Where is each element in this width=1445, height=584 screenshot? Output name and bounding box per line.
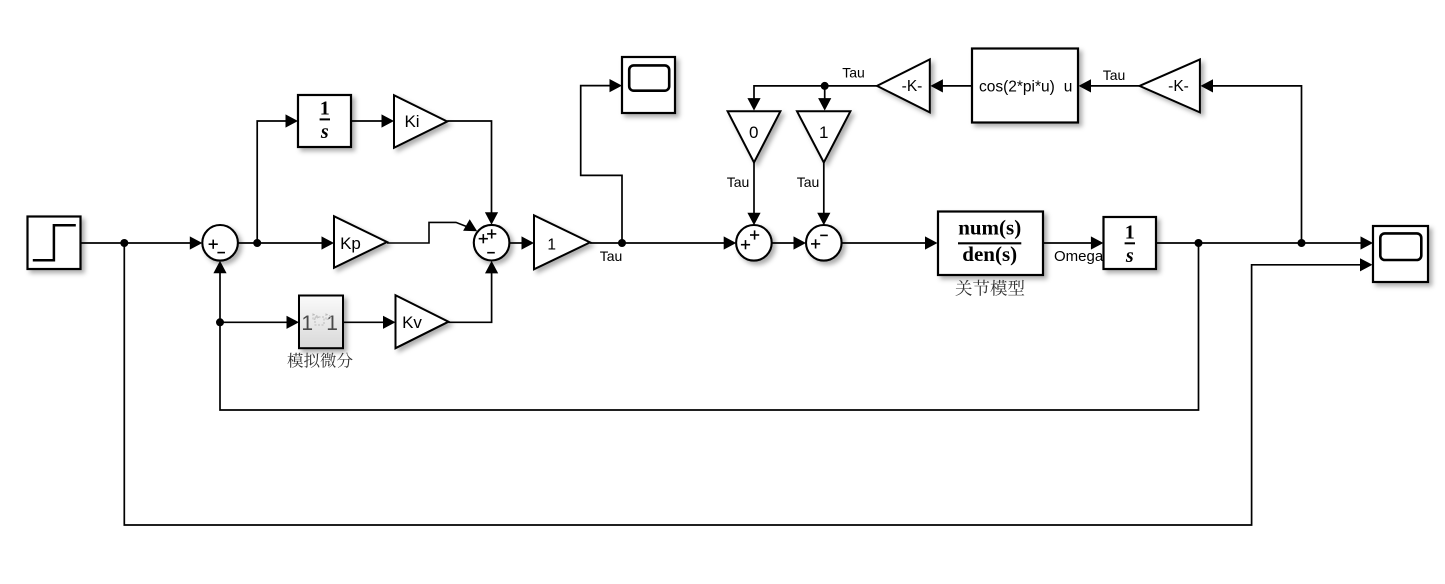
svg-text:Tau: Tau	[727, 174, 750, 190]
svg-text:1: 1	[819, 123, 828, 142]
svg-text:Kp: Kp	[340, 234, 361, 253]
svg-text:1: 1	[320, 98, 330, 120]
svg-text:Tau: Tau	[797, 174, 820, 190]
svg-text:s: s	[320, 121, 329, 143]
svg-text:-K-: -K-	[1168, 78, 1189, 95]
svg-text:cos(2*pi*u): cos(2*pi*u)	[979, 79, 1055, 96]
svg-text:Kv: Kv	[402, 313, 422, 332]
svg-text:1: 1	[326, 312, 338, 335]
svg-text:1: 1	[547, 237, 556, 254]
svg-text:num(s): num(s)	[958, 216, 1021, 240]
svg-text:Tau: Tau	[600, 248, 623, 264]
svg-text:1: 1	[1125, 222, 1135, 244]
svg-text:u: u	[1064, 79, 1073, 96]
svg-text:s: s	[1125, 245, 1134, 267]
svg-text:Tau: Tau	[842, 65, 865, 81]
svg-text:0: 0	[749, 123, 758, 142]
svg-text:den(s): den(s)	[962, 242, 1017, 266]
svg-text:Tau: Tau	[1103, 67, 1126, 83]
svg-text:1: 1	[301, 312, 313, 335]
svg-text:Ki: Ki	[404, 112, 419, 131]
svg-text:-K-: -K-	[902, 78, 923, 95]
svg-text:Omega: Omega	[1054, 248, 1104, 265]
